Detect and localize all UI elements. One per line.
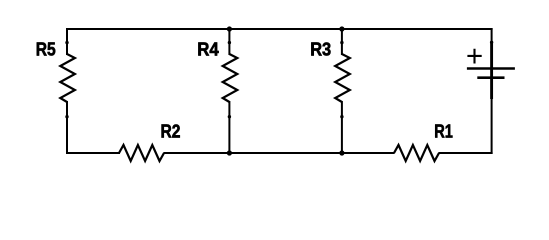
resistor R1 (394, 145, 439, 161)
wire bottom-middle segment (164, 152, 395, 154)
battery V1 negative plate (477, 76, 504, 79)
wire top rail (66, 28, 493, 30)
pin dot R5 bottom (65, 115, 68, 118)
pin dot R3 bottom (340, 115, 343, 118)
svg-text:R3: R3 (310, 39, 331, 60)
resistor R3 (335, 54, 350, 102)
wire bottom-right segment (439, 152, 493, 154)
svg-text:R2: R2 (161, 121, 181, 142)
svg-text:R4: R4 (197, 39, 219, 60)
wire R3 branch lower (341, 101, 343, 154)
node junction dot bottom R3 (339, 150, 344, 155)
wire R4 branch upper (228, 28, 230, 55)
wire R4 branch lower (228, 101, 230, 154)
pin dot R4 bottom (228, 115, 231, 118)
pin dot R5 top (65, 41, 68, 44)
resistor R2 (119, 145, 164, 161)
node junction dot bottom R4 (227, 150, 232, 155)
pin dot R4 top (228, 41, 231, 44)
wire right branch upper (battery branch) (491, 28, 493, 43)
wire right branch lower (battery branch) (491, 98, 493, 154)
pin dot battery top (490, 41, 493, 44)
wire R3 branch upper (341, 28, 343, 55)
pin dot R3 top (340, 41, 343, 44)
node junction dot top R3 (339, 26, 344, 31)
resistor R5 (60, 54, 75, 102)
battery V1 positive plate (467, 67, 515, 70)
battery V1 lead (thicker) (490, 42, 493, 99)
node junction dot top R4 (227, 26, 232, 31)
svg-text:R5: R5 (36, 39, 56, 60)
wire bottom-left segment (66, 152, 120, 154)
battery polarity plus sign (467, 49, 481, 64)
wire left branch lower (66, 101, 68, 154)
resistor R4 (223, 54, 238, 102)
wire left branch upper (66, 28, 68, 55)
svg-text:R1: R1 (434, 121, 453, 142)
